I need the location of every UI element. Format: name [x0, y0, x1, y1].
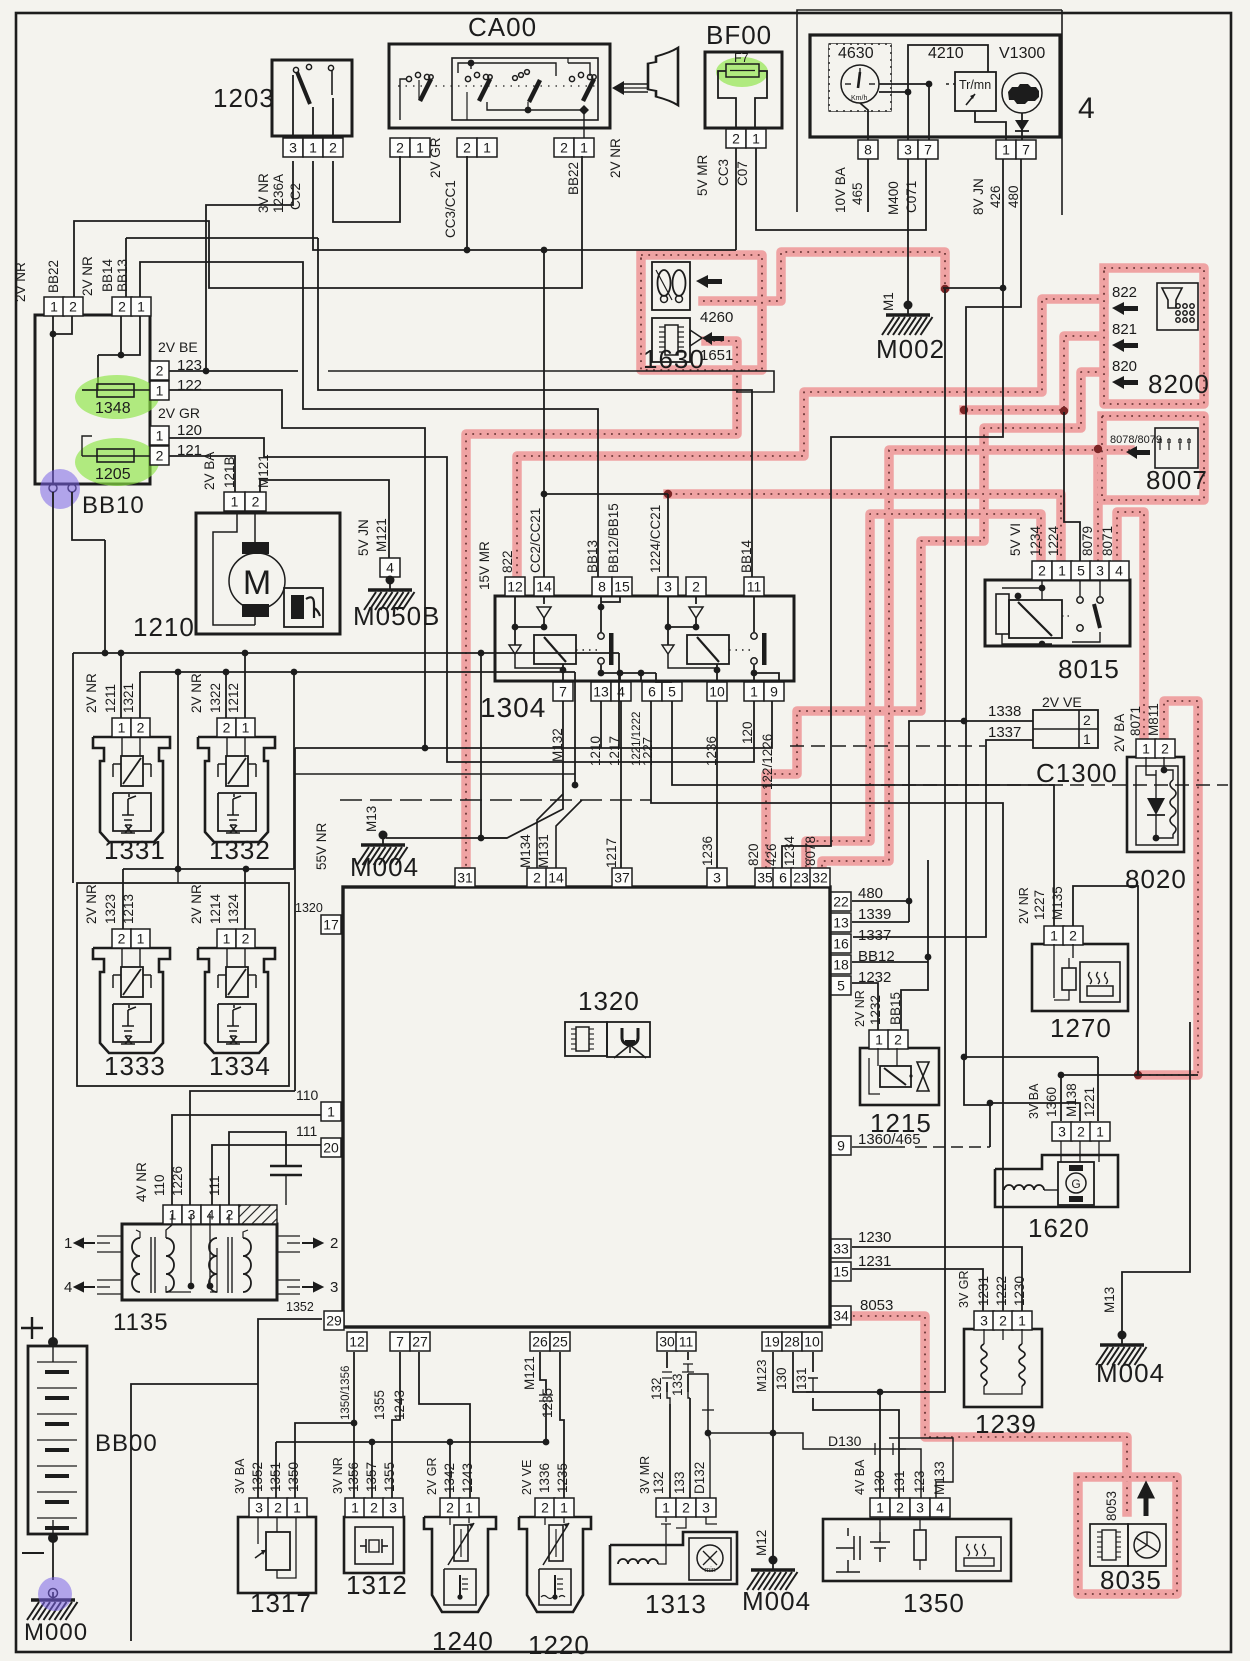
svg-text:1323: 1323 [103, 894, 118, 924]
svg-text:M: M [243, 564, 271, 602]
svg-text:3V BA: 3V BA [1027, 1083, 1041, 1119]
wire net 480 ECU pin 22 [852, 900, 909, 902]
ground M002 [904, 301, 913, 310]
svg-text:1239: 1239 [975, 1409, 1037, 1439]
highlight route net 8078 from 8007 to ECU pin 32 [822, 450, 1130, 872]
svg-text:15: 15 [614, 579, 630, 595]
svg-text:33: 33 [833, 1241, 849, 1257]
svg-text:8053: 8053 [860, 1297, 893, 1314]
svg-text:1210: 1210 [133, 612, 195, 642]
battery minus tick [22, 1552, 44, 1554]
wire net 1243 ECU 27 to 1240 [419, 1352, 470, 1498]
svg-text:10: 10 [709, 684, 725, 700]
highlight route net M811 from 8020 pin 2 [1140, 701, 1198, 1075]
svg-text:2V NR: 2V NR [189, 673, 204, 713]
svg-text:BF00: BF00 [706, 20, 772, 50]
engine lamp icon V1300 [1002, 73, 1042, 113]
svg-text:133: 133 [672, 1471, 687, 1494]
heater icon 1350 [956, 1537, 1001, 1571]
BB10 internal wires [52, 316, 54, 484]
ground M004 left [379, 831, 388, 840]
svg-text:1: 1 [662, 1500, 670, 1516]
svg-text:1355: 1355 [382, 1462, 397, 1492]
svg-text:1620: 1620 [1028, 1213, 1090, 1243]
connector CA00 pins 2 1 a [390, 138, 410, 157]
component BB00 battery [28, 1346, 87, 1534]
key icon [622, 83, 648, 85]
wire 8015 pin5 up [1064, 412, 1080, 561]
svg-text:M121: M121 [374, 518, 389, 552]
svg-text:12: 12 [507, 579, 523, 595]
svg-text:123: 123 [912, 1470, 927, 1493]
wire net 131 ECU 10 to 1350 [812, 1352, 814, 1372]
svg-text:15V MR: 15V MR [477, 541, 492, 590]
svg-text:111: 111 [296, 1123, 317, 1139]
wire net M400 to M002 [907, 159, 909, 302]
svg-text:BB00: BB00 [95, 1430, 158, 1457]
svg-text:3: 3 [389, 1500, 397, 1516]
wire net C07 BF00 to right [756, 148, 926, 230]
fuel pump icon [284, 588, 323, 627]
svg-text:1270: 1270 [1050, 1013, 1112, 1043]
svg-text:BB10: BB10 [82, 492, 145, 519]
component 1203 switch [272, 60, 352, 136]
svg-text:1321: 1321 [121, 683, 136, 713]
svg-text:1: 1 [309, 140, 317, 156]
svg-text:7: 7 [1022, 142, 1030, 158]
junction dot net 822 top [513, 586, 521, 594]
connector CA00 pins 2 1 c [554, 138, 574, 157]
1220 resistor arrow [549, 1525, 563, 1561]
svg-text:7: 7 [559, 684, 567, 700]
svg-text:4630: 4630 [838, 45, 874, 62]
svg-text:1: 1 [118, 720, 126, 736]
svg-text:1: 1 [465, 1500, 473, 1516]
wire net M133 to 1350 pin4 [889, 1438, 953, 1498]
arrow 4260 [696, 275, 722, 288]
highlight route net 1224 8015 pin 1 [668, 494, 1061, 563]
svg-text:8078: 8078 [803, 836, 818, 866]
wire net 1221/1222 1304 pin6 [651, 701, 1003, 1311]
svg-text:2: 2 [69, 299, 77, 315]
svg-text:2: 2 [118, 931, 126, 947]
svg-text:1230: 1230 [1012, 1276, 1027, 1306]
nozzle icon 1334 [218, 1004, 256, 1042]
svg-text:M12: M12 [754, 1530, 769, 1556]
ground M050B [386, 576, 395, 585]
svg-text:130: 130 [774, 1367, 789, 1390]
svg-text:M400: M400 [886, 181, 901, 215]
svg-text:426: 426 [988, 185, 1003, 208]
svg-text:1205: 1205 [95, 466, 131, 483]
svg-text:1231: 1231 [858, 1253, 891, 1270]
svg-text:1227: 1227 [1032, 890, 1047, 920]
svg-text:120: 120 [177, 422, 202, 439]
svg-text:1: 1 [875, 1032, 883, 1048]
wire net M123 ECU 19 to M004 [772, 1352, 774, 1560]
svg-text:2: 2 [252, 494, 260, 510]
svg-text:2: 2 [1077, 1124, 1085, 1140]
svg-text:2: 2 [446, 1500, 454, 1516]
svg-text:8200: 8200 [1148, 369, 1210, 399]
svg-text:1232: 1232 [868, 995, 883, 1025]
wire net 1236 1304 pin10 to ECU 3 [716, 701, 718, 872]
junction dot net 4260 [941, 285, 949, 293]
svg-text:1214: 1214 [208, 893, 223, 924]
wire net 1235 ECU 25 to 1220 [560, 1352, 564, 1498]
svg-text:C1300: C1300 [1036, 758, 1118, 788]
svg-text:480: 480 [1006, 185, 1021, 208]
svg-text:480: 480 [858, 885, 883, 902]
svg-text:3V BA: 3V BA [233, 1458, 247, 1494]
component 1220 sensor [519, 1517, 591, 1612]
svg-text:1320: 1320 [295, 901, 323, 915]
svg-text:4: 4 [1115, 563, 1123, 579]
component 8020 diode resistor [1127, 757, 1184, 852]
svg-text:BB14: BB14 [739, 539, 754, 573]
svg-text:2: 2 [1069, 928, 1077, 944]
svg-text:18: 18 [833, 957, 849, 973]
svg-text:1224: 1224 [1046, 525, 1061, 556]
wire 1203 pin2 stub [333, 156, 400, 222]
wire net 130 ECU 28 to 1350 [793, 1352, 880, 1498]
dashed box 4630 [829, 44, 891, 111]
svg-text:BB13: BB13 [585, 540, 600, 573]
connector 1270 pins 1 2 [1044, 926, 1064, 945]
wire net 1350/1356 to 1317 and 1312 [353, 1352, 355, 1498]
svg-text:2: 2 [242, 931, 250, 947]
1317 internals potentiometer [266, 1532, 290, 1570]
svg-text:1356: 1356 [346, 1462, 361, 1492]
svg-text:BB13: BB13 [115, 259, 130, 292]
svg-text:2: 2 [156, 448, 164, 464]
1215 internals [880, 1066, 911, 1087]
svg-text:1: 1 [1083, 731, 1091, 747]
component BF00 fuse box [705, 52, 782, 128]
svg-text:2: 2 [896, 1500, 904, 1516]
svg-text:2V NR: 2V NR [84, 673, 99, 713]
coil 1333 [121, 967, 143, 997]
svg-text:4: 4 [936, 1500, 944, 1516]
svg-text:2: 2 [223, 720, 231, 736]
svg-text:3: 3 [255, 1500, 263, 1516]
svg-text:1224/CC21: 1224/CC21 [648, 505, 663, 573]
svg-text:2: 2 [156, 363, 164, 379]
frame around 1333 1334 [77, 883, 289, 1086]
component 1240 sensor [424, 1517, 496, 1612]
connector 1210 pins 1 2 [224, 492, 245, 511]
svg-text:1135: 1135 [113, 1309, 169, 1336]
svg-text:822: 822 [1112, 284, 1137, 301]
svg-text:1651: 1651 [700, 347, 733, 364]
connector 1135 pins 1 3 4 2 [163, 1205, 182, 1224]
wire net 1232 ECU pin 5 [852, 983, 878, 1031]
svg-text:1313: 1313 [645, 1589, 707, 1619]
component 1331 injector [93, 737, 170, 842]
svg-text:M002: M002 [876, 334, 945, 364]
svg-text:1317: 1317 [250, 1588, 312, 1618]
svg-text:4260: 4260 [700, 309, 733, 326]
connector 1334 pins [217, 929, 236, 948]
svg-text:8: 8 [598, 579, 606, 595]
svg-text:D130: D130 [828, 1433, 862, 1449]
1220 thermometer icon [539, 1569, 571, 1605]
wire net 121 to pump [169, 456, 235, 492]
svg-text:426: 426 [764, 843, 779, 866]
svg-text:3: 3 [664, 579, 672, 595]
svg-text:2: 2 [396, 140, 404, 156]
svg-text:28: 28 [784, 1334, 800, 1350]
wire net M135 to junction [1073, 886, 1138, 1075]
wire net BB22 CA00 to BB10 [74, 156, 582, 297]
svg-text:CA00: CA00 [468, 12, 537, 42]
svg-text:2: 2 [1083, 712, 1091, 728]
wire net BB14 BB10 to 1304 pin 11 [126, 237, 318, 239]
svg-text:Tr/mn: Tr/mn [959, 78, 991, 92]
svg-text:BB22: BB22 [566, 162, 581, 195]
highlight route net 8079 from 8007 line to 8015 pin 3 [1093, 450, 1103, 562]
connector 1350 pins 1 2 3 4 [870, 1498, 890, 1517]
highlight route net 1234 8015 pin 2 to ECU pin 23 [806, 514, 1041, 872]
svg-text:8053: 8053 [1104, 1491, 1119, 1521]
component 1215 relay [860, 1048, 939, 1105]
svg-text:1243: 1243 [460, 1463, 475, 1493]
svg-text:1320: 1320 [578, 986, 640, 1016]
svg-text:1222: 1222 [994, 1276, 1009, 1306]
wire net 122 to 1304 pin 9 [169, 390, 425, 748]
wire net 132 133 ECU 30 11 [666, 1352, 668, 1368]
svg-text:1339: 1339 [858, 906, 891, 923]
svg-text:1351: 1351 [268, 1462, 283, 1492]
svg-text:5: 5 [837, 978, 845, 994]
svg-text:2: 2 [274, 1500, 282, 1516]
component 1320 ECU [343, 887, 830, 1327]
wire 132 133 lower [669, 1404, 671, 1498]
svg-text:25: 25 [552, 1334, 568, 1350]
connector ECU right pins [831, 892, 851, 911]
svg-text:1352: 1352 [286, 1300, 314, 1314]
svg-text:14: 14 [548, 870, 564, 886]
connector 1304 bottom pins [553, 682, 573, 701]
component 1317 [238, 1517, 316, 1593]
svg-text:12: 12 [349, 1334, 365, 1350]
connector ECU bottom pins [324, 1311, 344, 1330]
svg-text:1333: 1333 [104, 1051, 166, 1081]
wire net 1224 1304 pin3 down [667, 494, 669, 577]
svg-text:CC3: CC3 [716, 159, 731, 186]
svg-text:1236A: 1236A [271, 174, 286, 213]
wire M13 junction to 1620 pin 3 horizontals [1061, 1074, 1198, 1076]
1312 internals [355, 1527, 393, 1564]
component 1270 [1032, 944, 1128, 1011]
svg-text:5: 5 [668, 684, 676, 700]
wire 1620 pin2 up [990, 1103, 1080, 1121]
highlight outline module 8200 [1104, 268, 1204, 404]
component 1333 injector [93, 948, 170, 1053]
wire net 1338 [964, 720, 1033, 722]
connector 1333 pins [112, 929, 131, 948]
svg-text:1: 1 [1058, 563, 1066, 579]
connector 1312 pins 1 2 3 [345, 1498, 365, 1517]
svg-text:1: 1 [750, 684, 758, 700]
icon ecu chip 1630 [652, 318, 690, 362]
highlight route net 8071 8015 pin 4 to 8020 pin 1 [1117, 512, 1144, 744]
svg-text:2: 2 [329, 140, 337, 156]
svg-text:1334: 1334 [209, 1051, 271, 1081]
svg-text:3: 3 [702, 1500, 710, 1516]
wire net D132 ECU 11 branch [688, 1374, 708, 1433]
svg-text:6: 6 [648, 684, 656, 700]
connector ECU top pins [455, 868, 475, 887]
svg-text:2V NR: 2V NR [853, 990, 867, 1027]
highlight route net 8053 ECU pin 34 to 8035 [853, 1316, 1127, 1512]
svg-text:1: 1 [1096, 1124, 1104, 1140]
component 1332 injector [198, 737, 275, 842]
svg-text:17: 17 [323, 917, 339, 933]
svg-text:1: 1 [137, 299, 145, 315]
wire net CC2 horizontal [313, 161, 736, 250]
svg-text:1350: 1350 [286, 1462, 301, 1492]
1239 internals [981, 1344, 987, 1386]
coil 1331 [121, 756, 143, 786]
wire net 1210 1304 pin13 [600, 701, 602, 748]
svg-text:37: 37 [614, 870, 630, 886]
wire net 480 cluster down [966, 159, 1021, 1057]
wire injector supply rail vertical [104, 540, 106, 653]
svg-text:11: 11 [679, 1334, 694, 1350]
svg-text:1227: 1227 [640, 737, 655, 766]
icon shoes 1630 [652, 262, 690, 310]
svg-text:CC3/CC1: CC3/CC1 [443, 180, 458, 238]
connector 1215 pins 1 2 [869, 1030, 889, 1049]
wire M13 right to M004 [1122, 1022, 1190, 1337]
1240 thermometer icon [444, 1569, 476, 1605]
svg-text:120: 120 [740, 721, 755, 744]
svg-text:1215: 1215 [870, 1108, 932, 1138]
svg-text:4: 4 [386, 560, 394, 576]
component 1239 [964, 1329, 1042, 1407]
svg-text:M004: M004 [350, 852, 419, 882]
svg-text:2: 2 [137, 720, 145, 736]
svg-text:1: 1 [242, 720, 250, 736]
svg-text:131: 131 [892, 1470, 907, 1493]
svg-text:2: 2 [463, 140, 471, 156]
svg-text:M1: M1 [881, 292, 896, 311]
capacitor 111 [229, 1132, 286, 1205]
junction dot net 821 left [960, 406, 968, 414]
component 1620 pump [995, 1155, 1118, 1207]
svg-text:9: 9 [837, 1138, 845, 1154]
connector 1313 pins 1 2 3 [656, 1498, 676, 1517]
svg-text:4V NR: 4V NR [134, 1162, 149, 1202]
wire net 120 to 1304 pin 1 [169, 438, 754, 762]
svg-text:4210: 4210 [928, 45, 964, 62]
svg-text:31: 31 [457, 870, 473, 886]
svg-text:10: 10 [804, 1334, 820, 1350]
svg-text:3V NR: 3V NR [331, 1457, 345, 1494]
svg-text:G: G [1071, 1177, 1080, 1191]
component 1210 fuel pump [196, 513, 340, 634]
svg-text:M004: M004 [742, 1586, 811, 1616]
wire supply rail bottom left [276, 1441, 546, 1443]
svg-text:9: 9 [770, 684, 778, 700]
battery plus sign [21, 1327, 43, 1329]
svg-text:1220: 1220 [528, 1630, 590, 1660]
svg-text:2V NR: 2V NR [1017, 887, 1031, 924]
svg-text:CC2/CC21: CC2/CC21 [528, 508, 543, 573]
svg-text:821: 821 [1112, 321, 1137, 338]
svg-text:8: 8 [864, 142, 872, 158]
svg-text:19: 19 [764, 1334, 780, 1350]
svg-text:M134: M134 [518, 834, 533, 868]
svg-text:122/1226: 122/1226 [760, 734, 775, 790]
svg-text:1312: 1312 [346, 1570, 408, 1600]
wire net M134 M131 [537, 794, 563, 869]
wire net CC3/CC1 from CA00 [466, 156, 468, 250]
svg-text:1348: 1348 [95, 400, 131, 417]
connector 1304 top pins [505, 577, 525, 596]
wire net 111 to ECU pin 20 [212, 1145, 321, 1205]
svg-text:2: 2 [999, 1313, 1007, 1329]
component 1135 transformer [122, 1224, 277, 1300]
wire net 110 to ECU pin 1 [172, 1115, 321, 1205]
connector 1620 pins 3 2 1 [1052, 1122, 1072, 1141]
fuse 1348 [82, 389, 150, 391]
svg-text:2V BA: 2V BA [1112, 714, 1127, 752]
svg-text:2V NR: 2V NR [80, 256, 95, 296]
svg-text:CC2: CC2 [288, 183, 303, 210]
connector 1203 pins 3 1 2 [283, 138, 303, 157]
svg-text:822: 822 [500, 550, 515, 573]
svg-text:1232: 1232 [858, 969, 891, 986]
highlight route net 820 from 8200 to ECU pin 35 [766, 372, 1104, 872]
svg-text:1217: 1217 [604, 838, 619, 868]
svg-text:1: 1 [1142, 741, 1150, 757]
wire net BB13 BB10 to 1304 pin 8 [140, 262, 598, 577]
wire injector rail B [140, 671, 575, 673]
svg-text:1231: 1231 [976, 1276, 991, 1306]
svg-text:BB12: BB12 [858, 948, 895, 965]
wire net 1355 ECU 7 to 1312 [392, 1352, 400, 1498]
wire net M132 1304 pin 7 to M004 [386, 701, 563, 838]
fuse 1348 highlight [75, 375, 159, 419]
heater icon 1270 [1080, 962, 1120, 1002]
svg-text:1322: 1322 [208, 683, 223, 713]
component 1350 [823, 1519, 1011, 1581]
pin 4 M050B [380, 558, 400, 577]
svg-text:1: 1 [351, 1500, 359, 1516]
svg-text:132: 132 [649, 1377, 664, 1400]
pump motor [229, 553, 285, 609]
8020 internals [1145, 757, 1147, 766]
connector 1332 pins [217, 718, 236, 737]
connector 8020 pins 1 2 [1136, 739, 1156, 758]
nozzle icon 1332 [218, 793, 256, 831]
svg-text:3V MR: 3V MR [638, 1456, 652, 1494]
highlight route 4260 [703, 252, 945, 301]
svg-text:M13: M13 [1102, 1287, 1117, 1313]
wire net 1230 ECU pin 33 [852, 1247, 1022, 1311]
svg-text:2V BA: 2V BA [202, 452, 217, 490]
wire net 1226 upper [190, 1091, 295, 1205]
svg-text:3: 3 [980, 1313, 988, 1329]
wire net D130 and D132 junction line [708, 1433, 921, 1498]
component 8015 relay [985, 580, 1130, 646]
junction dot net M811 M13 [1134, 1071, 1142, 1079]
tachometer Tr/mn box [955, 72, 996, 111]
svg-text:34: 34 [833, 1308, 849, 1324]
svg-text:13: 13 [593, 684, 609, 700]
